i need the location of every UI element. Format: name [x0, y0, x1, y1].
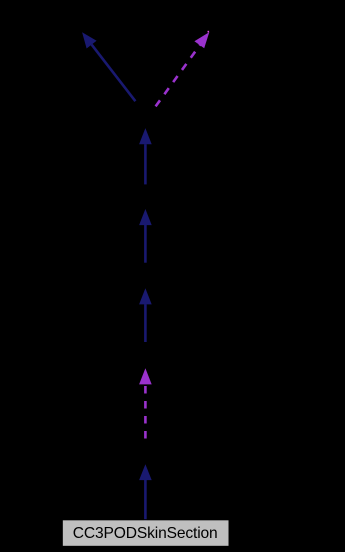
node CC3PODSkinSection (grey box) — [63, 520, 229, 546]
svg-text:CC3PODSkinSection: CC3PODSkinSection — [73, 525, 218, 542]
wire: usage edge node B -> node C (dashed purple) — [139, 368, 152, 440]
wire: inheritance edge node E -> node F (solid) — [139, 128, 152, 184]
wire: inheritance edge node F -> top-left node (solid diagonal) — [82, 32, 135, 101]
wire: usage edge node F -> top-right node (dashed purple diagonal) — [156, 32, 210, 106]
wire: inheritance edge node D -> node E (solid) — [139, 209, 152, 263]
wire: inheritance edge CC3PODSkinSection -> node B (solid) — [139, 464, 152, 520]
wire: inheritance edge node C -> node D (solid) — [139, 288, 152, 342]
junction pixel at purple arrow tip — [208, 31, 210, 33]
